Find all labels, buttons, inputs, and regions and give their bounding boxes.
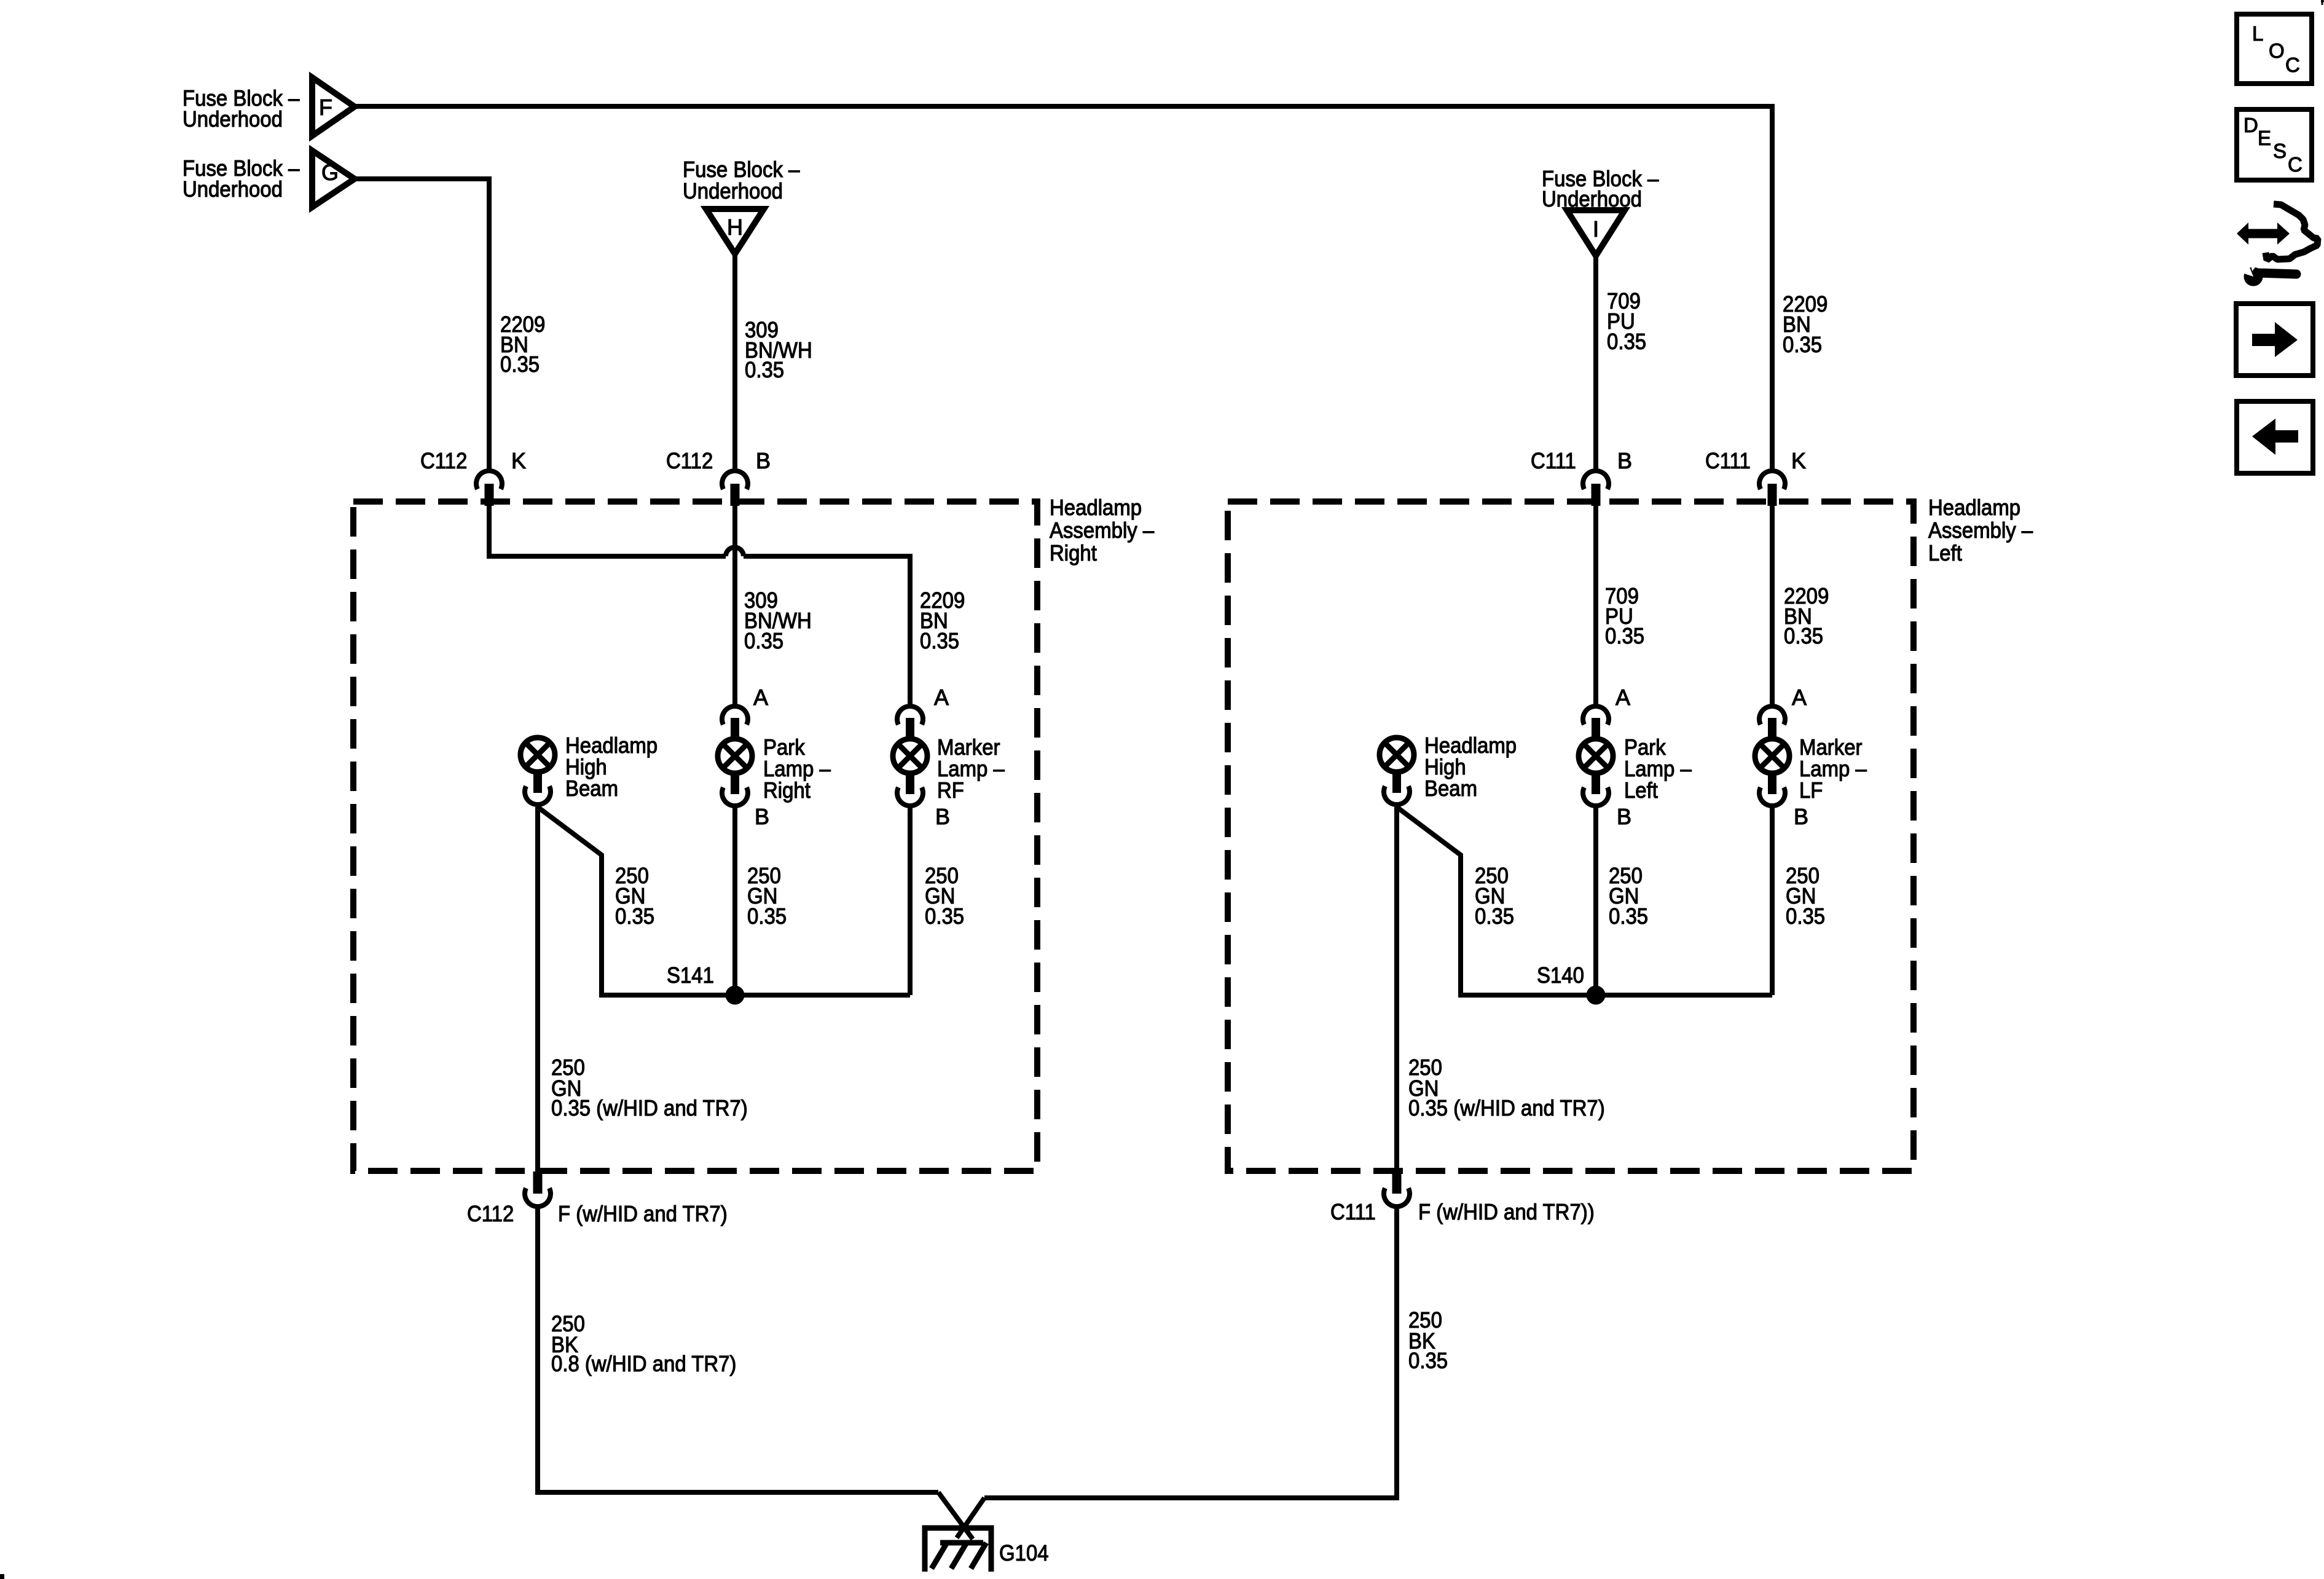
wire: fuse block I drop to C111 B: [1593, 256, 1598, 471]
wire: circuit 250 GN headlamp high beam left down to C111 F: [1394, 807, 1399, 1171]
fuse block connector triangle I: [1567, 210, 1625, 256]
svg-text:O: O: [2269, 39, 2285, 62]
svg-text:B: B: [1794, 804, 1808, 829]
svg-text:0.35: 0.35: [925, 904, 964, 929]
fuse block connector triangle F: [312, 77, 355, 136]
svg-text:A: A: [1792, 685, 1807, 710]
icon: previous page arrow box: [2237, 401, 2313, 473]
svg-text:Underhood: Underhood: [183, 176, 283, 202]
dashed box: Headlamp Assembly - Right: [353, 502, 1037, 1171]
svg-text:L: L: [2252, 22, 2263, 45]
svg-text:C: C: [2285, 53, 2300, 76]
svg-text:Right: Right: [763, 778, 811, 803]
wire: park lamp right pin B to S141: [732, 807, 737, 995]
svg-text:0.35: 0.35: [1609, 904, 1648, 929]
wire: park lamp left pin B to S140: [1593, 807, 1598, 995]
page edge mark bottom-left: [0, 1574, 4, 1579]
svg-text:Headlamp: Headlamp: [1050, 495, 1142, 520]
icon: LOC box: [2237, 14, 2312, 84]
svg-text:G104: G104: [999, 1540, 1049, 1565]
svg-text:B: B: [755, 804, 769, 829]
page edge mark top-right: [2321, 0, 2324, 5]
wire: headlamp high beam right to S141 splice run: [538, 807, 910, 995]
svg-text:S140: S140: [1537, 963, 1584, 988]
wire: marker lamp RF pin B to S141: [908, 807, 913, 995]
lamp: marker lamp LF: [1755, 706, 1789, 806]
svg-text:F (w/HID and TR7)): F (w/HID and TR7)): [1418, 1199, 1595, 1224]
wire: circuit 250 BK from C112 F to ground run: [538, 1208, 938, 1492]
svg-text:F (w/HID and TR7): F (w/HID and TR7): [558, 1201, 728, 1226]
svg-text:0.35 (w/HID and TR7): 0.35 (w/HID and TR7): [551, 1095, 748, 1120]
wire: circuit 2209 continued to marker lamp RF pin A: [744, 556, 910, 704]
svg-text:B: B: [935, 804, 950, 829]
svg-text:B: B: [1617, 804, 1631, 829]
svg-text:0.35: 0.35: [744, 628, 783, 653]
svg-text:0.35: 0.35: [1783, 332, 1822, 357]
connector C111 pin K terminal: [1759, 471, 1785, 506]
svg-text:0.35: 0.35: [745, 357, 784, 382]
svg-text:A: A: [934, 685, 949, 710]
wire: circuit 709 from C111 B to park lamp left pin A: [1593, 504, 1598, 704]
svg-text:0.35: 0.35: [1784, 623, 1823, 648]
svg-text:0.35: 0.35: [747, 904, 787, 929]
wire: circuit 2209 from C112 K to marker lamp RF, with hop over 309 wire: [489, 504, 726, 556]
svg-text:0.35: 0.35: [1786, 904, 1825, 929]
svg-text:Right: Right: [1050, 540, 1097, 565]
svg-text:B: B: [756, 448, 771, 473]
svg-text:Headlamp: Headlamp: [1928, 495, 2020, 520]
svg-text:0.35: 0.35: [615, 904, 654, 929]
svg-text:0.35: 0.35: [500, 352, 540, 377]
lamp: park lamp right: [718, 706, 752, 806]
wire: circuit 250 BK from C111 F to ground run: [984, 1208, 1397, 1498]
svg-text:H: H: [727, 215, 743, 240]
wire: circuit 309 from C112 B to park lamp right pin A: [732, 504, 737, 704]
wire: fuse block G output, run and drop to C112 K: [355, 179, 489, 471]
svg-text:0.35: 0.35: [1607, 329, 1646, 354]
svg-text:0.35: 0.35: [1408, 1348, 1448, 1373]
svg-text:Underhood: Underhood: [1542, 186, 1642, 211]
svg-text:I: I: [1593, 216, 1599, 242]
svg-text:0.35: 0.35: [920, 628, 959, 653]
svg-text:Assembly –: Assembly –: [1050, 518, 1154, 543]
icon: next page arrow box: [2236, 304, 2313, 376]
ground symbol G104: [925, 1528, 991, 1572]
svg-text:C111: C111: [1330, 1199, 1376, 1224]
lamp: headlamp high beam (left assembly): [1380, 738, 1414, 805]
wire: left ground lead diagonal into G104: [938, 1492, 973, 1539]
fuse block connector triangle H: [706, 209, 764, 254]
svg-text:A: A: [1615, 685, 1630, 710]
wire: fuse block F output, horizontal run and drop to C111 K: [355, 106, 1772, 471]
connector C111 pin F terminal: [1384, 1171, 1410, 1207]
lamp: park lamp left: [1579, 706, 1613, 806]
svg-text:S: S: [2273, 140, 2287, 162]
svg-text:C112: C112: [666, 448, 713, 473]
svg-text:Beam: Beam: [565, 776, 618, 801]
connector C112 pin F terminal: [525, 1171, 551, 1207]
svg-text:0.35 (w/HID and TR7): 0.35 (w/HID and TR7): [1408, 1095, 1605, 1120]
svg-text:S141: S141: [667, 963, 714, 988]
wire: circuit 2209 from C111 K to marker lamp LF pin A: [1770, 504, 1775, 704]
svg-text:Underhood: Underhood: [683, 178, 783, 203]
svg-text:LF: LF: [1799, 778, 1823, 803]
svg-text:B: B: [1617, 448, 1632, 473]
svg-text:0.35: 0.35: [1475, 904, 1514, 929]
svg-text:A: A: [753, 685, 768, 710]
svg-text:0.8 (w/HID and TR7): 0.8 (w/HID and TR7): [551, 1351, 736, 1376]
icon: service info (panel outline, double arrow, wrench): [2237, 204, 2318, 286]
svg-text:C112: C112: [467, 1201, 514, 1226]
svg-text:Underhood: Underhood: [183, 106, 283, 132]
svg-text:RF: RF: [937, 778, 964, 803]
icon: DESC box: [2237, 109, 2312, 180]
lamp: headlamp high beam (right assembly): [520, 738, 555, 805]
svg-text:C112: C112: [420, 448, 467, 473]
connector C112 pin K terminal: [476, 471, 502, 506]
svg-text:E: E: [2258, 127, 2271, 149]
svg-text:Assembly –: Assembly –: [1928, 518, 2033, 543]
svg-text:Beam: Beam: [1424, 776, 1477, 801]
splice S140 junction dot: [1587, 986, 1606, 1005]
wire: headlamp high beam left to S140 splice run: [1397, 807, 1772, 995]
svg-text:K: K: [1791, 448, 1806, 473]
svg-text:C111: C111: [1531, 448, 1576, 473]
svg-text:C: C: [2288, 153, 2302, 176]
splice S141 junction dot: [726, 986, 745, 1005]
dashed box: Headlamp Assembly - Left: [1228, 502, 1914, 1171]
wire: right ground lead diagonal into G104: [957, 1498, 984, 1538]
wire hop over circuit 309 at junction: [726, 548, 744, 557]
svg-text:G: G: [321, 160, 339, 185]
svg-text:K: K: [511, 448, 526, 473]
svg-text:C111: C111: [1705, 448, 1751, 473]
wire: fuse block H drop to C112 B: [732, 254, 737, 471]
svg-text:F: F: [319, 95, 332, 120]
svg-text:Left: Left: [1624, 778, 1658, 803]
lamp: marker lamp RF: [893, 706, 927, 806]
svg-text:D: D: [2244, 114, 2258, 136]
wire: circuit 250 GN headlamp high beam right down to C112 F: [535, 807, 540, 1171]
svg-text:Left: Left: [1928, 540, 1962, 565]
connector C111 pin B terminal: [1583, 471, 1609, 506]
connector C112 pin B terminal: [722, 471, 748, 506]
fuse block connector triangle G: [312, 151, 355, 207]
wire: marker lamp LF pin B to S140: [1770, 807, 1775, 995]
svg-text:0.35: 0.35: [1605, 623, 1644, 648]
